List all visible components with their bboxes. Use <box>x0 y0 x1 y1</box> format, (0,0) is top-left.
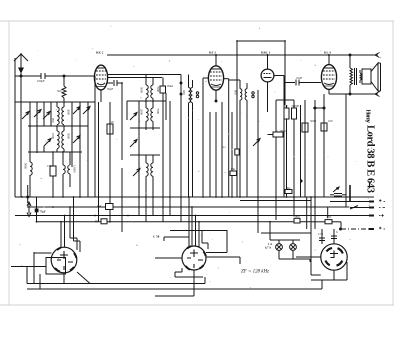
svg-text:600: 600 <box>234 90 238 95</box>
svg-text:50Ω: 50Ω <box>326 215 332 219</box>
svg-text:ZF = 128 kHz: ZF = 128 kHz <box>241 270 269 275</box>
svg-text:7000: 7000 <box>156 86 160 93</box>
svg-text:110: 110 <box>109 120 114 124</box>
svg-text:100pF: 100pF <box>37 79 45 83</box>
svg-text:5000: 5000 <box>67 133 71 140</box>
svg-text:C 58: C 58 <box>153 235 160 239</box>
svg-text:2000: 2000 <box>140 109 144 116</box>
svg-text:1000: 1000 <box>51 133 55 140</box>
svg-text:7000: 7000 <box>156 108 160 115</box>
svg-text:KL 4: KL 4 <box>324 51 331 55</box>
svg-text:1MΩ: 1MΩ <box>167 84 174 88</box>
svg-text:500: 500 <box>97 206 102 209</box>
svg-text:3000: 3000 <box>67 109 71 116</box>
svg-text:Ma: Ma <box>231 167 236 171</box>
svg-text:150: 150 <box>47 164 52 168</box>
svg-text:100: 100 <box>328 119 333 123</box>
svg-text:5000: 5000 <box>140 87 144 94</box>
svg-text:Lord 38 B E 643: Lord 38 B E 643 <box>365 125 376 193</box>
svg-text:96a: 96a <box>286 186 291 190</box>
svg-text:Horny: Horny <box>365 110 371 124</box>
svg-text:0,7 A: 0,7 A <box>265 247 271 250</box>
svg-text:C73: C73 <box>318 232 324 236</box>
svg-text:9000: 9000 <box>24 163 28 170</box>
svg-text:KF 3: KF 3 <box>209 51 216 55</box>
svg-text:50000: 50000 <box>292 104 300 108</box>
svg-text:500: 500 <box>57 89 62 93</box>
svg-text:15000: 15000 <box>73 165 77 173</box>
svg-text:10nF: 10nF <box>296 76 303 80</box>
svg-text:KBC 1: KBC 1 <box>261 51 271 55</box>
svg-text:600: 600 <box>182 90 186 95</box>
svg-text:KK 2: KK 2 <box>96 51 104 55</box>
svg-text:50pF: 50pF <box>107 87 114 91</box>
svg-text:96b: 96b <box>295 215 300 219</box>
svg-text:5000: 5000 <box>310 119 317 123</box>
svg-text:900: 900 <box>51 118 55 123</box>
svg-text:77µF: 77µF <box>40 211 46 214</box>
